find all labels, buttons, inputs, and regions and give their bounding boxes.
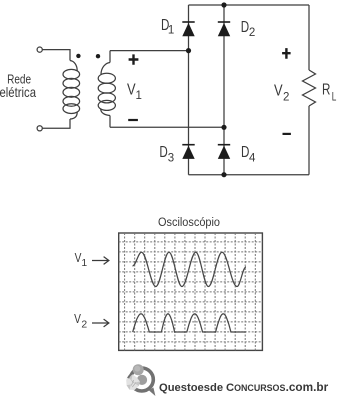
svg-text:1: 1 [168, 24, 174, 36]
svg-text:L: L [332, 92, 337, 104]
svg-text:.com.br: .com.br [286, 380, 329, 394]
svg-text:1: 1 [136, 90, 142, 102]
svg-text:2: 2 [81, 319, 87, 330]
svg-text:2: 2 [283, 92, 289, 104]
svg-text:1: 1 [81, 258, 87, 269]
svg-text:4: 4 [249, 153, 256, 165]
svg-text:V: V [74, 312, 81, 326]
svg-text:elétrica: elétrica [0, 84, 36, 100]
svg-text:D: D [159, 144, 167, 161]
svg-text:C: C [226, 382, 234, 394]
svg-text:V: V [274, 83, 283, 100]
svg-text:ONCURSOS: ONCURSOS [234, 383, 285, 393]
svg-text:R: R [322, 82, 330, 99]
svg-text:Osciloscópio: Osciloscópio [158, 215, 220, 229]
svg-text:3: 3 [168, 153, 174, 165]
svg-text:Questoesde: Questoesde [159, 382, 223, 394]
svg-text:2: 2 [249, 27, 255, 39]
